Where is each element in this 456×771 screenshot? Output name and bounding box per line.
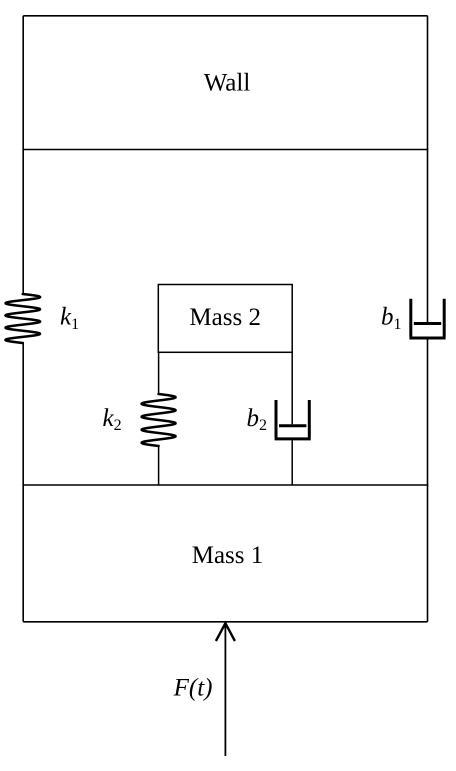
svg-text:Wall: Wall [204, 69, 251, 96]
svg-text:k1: k1 [60, 304, 79, 333]
node: Mass 1 top line [22, 484, 428, 486]
svg-text:Mass 1: Mass 1 [192, 542, 264, 569]
wall bottom line [22, 149, 428, 151]
spring K2 [142, 394, 176, 446]
spring K1 [6, 294, 41, 343]
wire: M2 right leg upper (rod into damper B2) [291, 352, 293, 425]
svg-text:k2: k2 [103, 405, 122, 434]
force arrow head [216, 623, 235, 641]
damper B2 piston [279, 424, 306, 427]
svg-text:F(t): F(t) [173, 674, 213, 701]
outer frame (wall + masses enclosure) [23, 16, 427, 622]
damper B1 cup [409, 299, 445, 338]
wire: M2 left leg lower [158, 446, 160, 485]
svg-text:b2: b2 [247, 405, 268, 434]
wire: M2 right leg lower [291, 440, 293, 485]
svg-text:Mass 2: Mass 2 [189, 304, 261, 331]
force arrow F(t) shaft [224, 623, 226, 757]
mass M2 box [158, 285, 292, 353]
damper B1 piston [414, 322, 441, 325]
damper B2 cup [275, 400, 311, 439]
svg-text:b1: b1 [381, 304, 402, 333]
wire: M2 left leg upper [158, 352, 160, 394]
